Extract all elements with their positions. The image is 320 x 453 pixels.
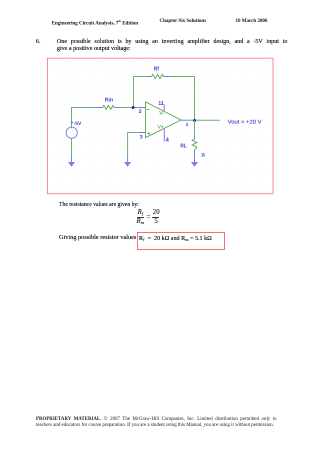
svg-text:V+: V+	[158, 124, 164, 130]
grid dots	[48, 59, 272, 193]
footer	[36, 417, 280, 428]
wire: Rin to op-amp pin 2	[121, 107, 139, 109]
header left	[52, 19, 138, 27]
header right	[236, 19, 268, 24]
wire: source to ground	[71, 138, 73, 156]
svg-text:Rf: Rf	[154, 66, 159, 73]
ground under source	[68, 156, 75, 167]
svg-text:2: 2	[139, 109, 142, 115]
svg-text:V-: V-	[159, 111, 164, 117]
wire: feedback top-right run	[170, 77, 195, 121]
input minus sign	[147, 109, 150, 111]
fraction equation	[130, 205, 170, 207]
resistor Rin	[96, 105, 121, 109]
wire: feedback top-left run	[134, 77, 147, 108]
svg-text:3: 3	[140, 134, 143, 140]
input plus sign	[147, 132, 150, 135]
resistance text	[59, 202, 139, 208]
resistor Rf	[146, 74, 170, 78]
answer text	[139, 236, 212, 242]
svg-text:1: 1	[186, 122, 189, 128]
svg-text:RL: RL	[180, 144, 187, 150]
giving values text	[59, 235, 136, 241]
wire: output to load	[190, 119, 220, 121]
power stub pin 11	[163, 105, 165, 111]
resistor RL	[192, 136, 197, 154]
ground under RL	[191, 154, 198, 167]
svg-text:Rin: Rin	[105, 97, 114, 104]
power stub pin 4	[163, 129, 165, 142]
problem number	[36, 39, 41, 45]
junction node at pin 2	[132, 106, 135, 109]
problem statement	[57, 39, 288, 53]
wire: source up to Rin	[72, 108, 96, 129]
svg-text:-5V: -5V	[74, 121, 82, 127]
output pin stub pin 1	[181, 119, 190, 121]
svg-text:11: 11	[158, 101, 164, 107]
svg-text:Vout = +20 V: Vout = +20 V	[228, 120, 263, 126]
pin 3 stub	[138, 132, 145, 134]
schematic frame	[48, 58, 274, 194]
output junction node	[193, 119, 196, 122]
svg-text:1k: 1k	[201, 153, 205, 159]
pin 2 stub	[138, 107, 145, 109]
op-amp U1 triangle	[146, 102, 182, 138]
wire: junction down to RL	[194, 120, 196, 136]
answer red box	[137, 232, 225, 250]
header center	[160, 19, 207, 24]
ground under pin 3	[124, 156, 131, 167]
wire: pin 3 corner to ground	[128, 133, 139, 157]
voltage source V1 -5V	[66, 121, 77, 138]
